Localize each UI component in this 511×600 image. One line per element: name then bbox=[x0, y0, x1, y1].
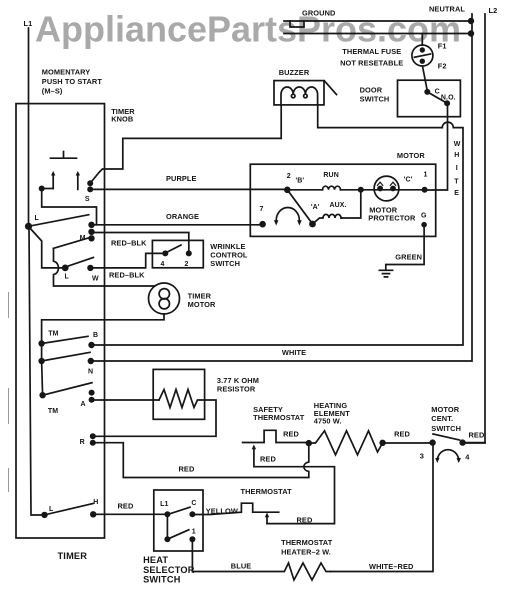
svg-text:M: M bbox=[80, 235, 86, 242]
push button arrow right bbox=[77, 174, 79, 189]
heat selector blade upper bbox=[167, 507, 190, 514]
door switch box bbox=[398, 80, 461, 117]
blade TM-B bbox=[42, 336, 88, 343]
node neutral junction 1 bbox=[468, 18, 474, 24]
node N bbox=[88, 358, 94, 364]
svg-text:T: T bbox=[454, 179, 459, 186]
wire fuse F1 lead bbox=[421, 34, 423, 46]
node motor junction bbox=[358, 187, 364, 193]
node wrinkle 4 bbox=[162, 250, 168, 256]
svg-text:H: H bbox=[454, 152, 459, 159]
wire node L down to timer LH switch bbox=[29, 227, 45, 515]
svg-text:L: L bbox=[65, 274, 70, 281]
node TM pivot 1 bbox=[38, 340, 44, 346]
node motor 7 bbox=[259, 221, 266, 228]
svg-text:ORANGE: ORANGE bbox=[166, 212, 199, 221]
svg-text:C: C bbox=[435, 89, 440, 96]
svg-text:TM: TM bbox=[48, 331, 58, 338]
svg-text:4: 4 bbox=[465, 453, 470, 462]
wire fuse F2 to door switch C bbox=[423, 66, 428, 91]
svg-text:GROUND: GROUND bbox=[302, 9, 336, 18]
svg-text:SWITCH: SWITCH bbox=[210, 259, 240, 268]
resistor box bbox=[153, 369, 204, 419]
wire push contact left bbox=[42, 188, 54, 190]
red wire H to heat selector L1 bbox=[93, 513, 167, 515]
wrinkle control switch box bbox=[152, 240, 203, 267]
wire NO to motor terminal 1 bbox=[425, 103, 448, 190]
svg-text:1: 1 bbox=[192, 529, 196, 536]
node B bbox=[88, 342, 94, 348]
svg-text:L1: L1 bbox=[24, 19, 33, 28]
svg-text:W: W bbox=[454, 141, 461, 148]
fuse contact line bbox=[415, 54, 431, 57]
svg-text:AppliancePartsPros.com: AppliancePartsPros.com bbox=[35, 9, 461, 50]
node cent switch 3 bbox=[429, 439, 435, 445]
svg-text:PROTECTOR: PROTECTOR bbox=[368, 214, 416, 223]
svg-text:HEATER–2 W.: HEATER–2 W. bbox=[281, 548, 331, 557]
svg-text:1: 1 bbox=[424, 172, 428, 179]
node R lower bbox=[90, 440, 96, 446]
red wire R to heating element bbox=[93, 443, 309, 478]
wrinkle switch blade bbox=[165, 245, 181, 253]
svg-text:SWITCH: SWITCH bbox=[360, 94, 390, 103]
wire cent switch 3 down to heater bbox=[331, 443, 434, 572]
door switch blade C-NO bbox=[427, 92, 447, 103]
buzzer coil loops bbox=[291, 94, 295, 98]
white wire buzzer to node B with crossover hump bbox=[92, 105, 464, 345]
svg-text:RUN: RUN bbox=[323, 172, 338, 179]
orange wire M to motor 7 bbox=[92, 224, 263, 226]
motor protector caret left bbox=[377, 182, 382, 185]
svg-text:L2: L2 bbox=[489, 6, 498, 15]
svg-text:MOTOR: MOTOR bbox=[397, 151, 425, 160]
cent switch arc arrows bbox=[438, 450, 459, 459]
node protector right bbox=[390, 186, 396, 192]
node motor 1 bbox=[422, 187, 428, 193]
thermostat heater zigzag bbox=[192, 539, 330, 580]
wire M blade to timer motor with crossover hump bbox=[54, 248, 155, 286]
scan artifact lines bbox=[8, 292, 10, 492]
ground bus wire bbox=[284, 20, 471, 22]
blade L-W timer bbox=[65, 258, 93, 268]
svg-text:2: 2 bbox=[287, 173, 291, 180]
node M1 bbox=[88, 222, 94, 228]
timer box bbox=[16, 104, 105, 538]
wire A to resistor bbox=[92, 399, 159, 401]
node push left contact bbox=[39, 186, 45, 192]
heating element zigzag bbox=[309, 431, 433, 455]
svg-text:SWITCH: SWITCH bbox=[143, 575, 181, 585]
svg-text:RED: RED bbox=[297, 516, 313, 525]
svg-text:3: 3 bbox=[420, 452, 424, 461]
svg-text:NOT RESETABLE: NOT RESETABLE bbox=[340, 58, 403, 67]
svg-text:MOMENTARY: MOMENTARY bbox=[42, 68, 91, 77]
blade L-M bbox=[29, 215, 89, 227]
wire L2 vertical to cent switch 4 bbox=[463, 14, 485, 443]
svg-text:RESISTOR: RESISTOR bbox=[217, 385, 256, 394]
safety thermostat bbox=[243, 430, 309, 442]
svg-text:PUSH TO START: PUSH TO START bbox=[42, 77, 103, 86]
push button cap bbox=[51, 152, 77, 159]
svg-text:RED–BLK: RED–BLK bbox=[109, 271, 145, 280]
svg-text:RED–BLK: RED–BLK bbox=[111, 239, 147, 248]
blade M-TM bbox=[54, 237, 92, 248]
node selector bottom left bbox=[164, 536, 170, 542]
svg-text:SWITCH: SWITCH bbox=[431, 424, 461, 433]
svg-text:N.O.: N.O. bbox=[441, 95, 456, 102]
buzzer box bbox=[274, 81, 324, 105]
svg-text:H: H bbox=[93, 499, 98, 506]
node TM pivot 3 bbox=[39, 392, 45, 398]
svg-text:DOOR: DOOR bbox=[360, 86, 383, 95]
svg-text:B: B bbox=[93, 332, 98, 339]
wire push left to M bbox=[42, 190, 97, 225]
svg-text:TIMER: TIMER bbox=[58, 551, 88, 561]
wire TM rail bbox=[42, 344, 43, 396]
svg-text:BUZZER: BUZZER bbox=[279, 68, 310, 77]
svg-text:4: 4 bbox=[161, 261, 165, 268]
safety thermostat link arrow bbox=[254, 449, 335, 524]
motor protector caret right bbox=[390, 182, 395, 185]
svg-text:S: S bbox=[85, 196, 90, 203]
push button arrow left bbox=[52, 174, 54, 189]
svg-text:PURPLE: PURPLE bbox=[166, 174, 197, 183]
run coil bbox=[323, 186, 341, 190]
node selector C bbox=[189, 511, 195, 517]
heat selector switch box bbox=[154, 490, 203, 551]
node door NO bbox=[444, 100, 450, 106]
wire motor G to ground bbox=[386, 227, 424, 269]
node selector L1 bbox=[164, 511, 170, 517]
svg-text:KNOB: KNOB bbox=[111, 114, 133, 123]
svg-text:THERMAL FUSE: THERMAL FUSE bbox=[342, 47, 401, 56]
svg-text:R: R bbox=[80, 439, 85, 446]
node motor A bbox=[309, 221, 316, 228]
wire L1 feed bbox=[28, 28, 30, 226]
svg-text:'B': 'B' bbox=[296, 178, 305, 185]
svg-text:F1: F1 bbox=[438, 42, 447, 51]
svg-text:THERMOSTAT: THERMOSTAT bbox=[281, 538, 333, 547]
motor blade 2-A bbox=[287, 190, 312, 224]
svg-text:RED: RED bbox=[394, 430, 410, 439]
node wrinkle 2 bbox=[186, 250, 192, 256]
node S upper bbox=[87, 180, 93, 186]
svg-text:YELLOW: YELLOW bbox=[206, 507, 238, 516]
svg-text:I: I bbox=[456, 165, 458, 172]
svg-text:RED: RED bbox=[179, 465, 195, 474]
node contact L timer bbox=[62, 265, 69, 272]
blade TM-A bbox=[43, 383, 92, 396]
svg-text:MOTOR: MOTOR bbox=[431, 405, 459, 414]
node R upper bbox=[90, 433, 96, 439]
heat selector wire L1 down bbox=[166, 514, 168, 539]
svg-text:THERMOSTAT: THERMOSTAT bbox=[241, 487, 293, 496]
svg-text:HEAT: HEAT bbox=[143, 555, 168, 565]
node door C bbox=[424, 89, 430, 95]
thermostat heater link arrow bbox=[266, 516, 268, 524]
motor box bbox=[250, 164, 435, 236]
node TM pivot 2 bbox=[38, 358, 44, 364]
svg-text:'C': 'C' bbox=[404, 177, 413, 184]
svg-text:'A': 'A' bbox=[311, 204, 320, 211]
neutral to fuse wire bbox=[284, 33, 471, 35]
svg-text:MOTOR: MOTOR bbox=[188, 300, 216, 309]
svg-text:RED: RED bbox=[469, 431, 485, 440]
timer motor circle bbox=[149, 283, 180, 314]
chassis ground tab bbox=[290, 21, 304, 27]
svg-text:WHITE–RED: WHITE–RED bbox=[369, 562, 414, 571]
node neutral junction 2 bbox=[468, 30, 474, 36]
svg-text:RED: RED bbox=[260, 455, 276, 464]
motor centrifugal arc bbox=[276, 208, 299, 221]
svg-text:W: W bbox=[92, 276, 99, 283]
svg-text:AUX.: AUX. bbox=[330, 202, 347, 209]
node heater left junction bbox=[306, 440, 312, 446]
svg-text:CENT.: CENT. bbox=[431, 414, 453, 423]
svg-text:SELECTOR: SELECTOR bbox=[143, 565, 195, 575]
svg-text:L1: L1 bbox=[160, 501, 168, 508]
red-blk wire W to wrinkle 4 bbox=[90, 253, 165, 268]
svg-text:7: 7 bbox=[260, 206, 264, 213]
node A lower bbox=[89, 397, 95, 403]
timer motor coil bbox=[159, 289, 169, 299]
svg-text:F2: F2 bbox=[438, 61, 447, 70]
wire S to buzzer bbox=[90, 105, 281, 183]
blade TM-N bbox=[42, 352, 90, 361]
svg-text:A: A bbox=[81, 401, 86, 408]
node S lower bbox=[87, 186, 93, 192]
heat selector blade lower bbox=[167, 530, 188, 539]
node M2 bbox=[88, 229, 94, 235]
node protector left bbox=[377, 186, 383, 192]
cent switch blade bbox=[433, 434, 460, 440]
svg-text:WHITE: WHITE bbox=[282, 348, 306, 357]
motor run winding wire 2 to 1 bbox=[287, 189, 322, 191]
node motor G bbox=[421, 222, 427, 228]
node M3 bbox=[88, 235, 94, 241]
svg-text:L: L bbox=[49, 506, 54, 513]
wire node L to contact L bbox=[29, 227, 66, 268]
svg-text:G: G bbox=[421, 213, 427, 220]
buzzer coil bbox=[281, 87, 318, 105]
svg-text:RED: RED bbox=[118, 502, 134, 511]
node fuse F1 dot bbox=[420, 47, 425, 52]
buzzer striker bbox=[325, 81, 337, 95]
blade L-H timer bbox=[45, 504, 94, 515]
motor protector circle bbox=[374, 176, 399, 201]
node A upper bbox=[89, 390, 95, 396]
earth ground symbol bbox=[379, 270, 392, 277]
thermal fuse F1-F2 bbox=[412, 45, 433, 66]
node selector 1 bbox=[189, 536, 195, 542]
node L bottom bbox=[41, 512, 47, 518]
node heater right junction bbox=[379, 440, 385, 446]
node motor 2 bbox=[284, 187, 291, 194]
node cent switch 4 bbox=[459, 439, 465, 445]
svg-text:RED: RED bbox=[283, 430, 299, 439]
svg-text:THERMOSTAT: THERMOSTAT bbox=[253, 413, 305, 422]
purple wire S to motor 2 bbox=[90, 188, 287, 190]
aux coil wire A to junction bbox=[313, 214, 342, 224]
svg-text:E: E bbox=[454, 190, 459, 197]
node H bottom bbox=[90, 511, 96, 517]
neutral vertical wire to node N bbox=[91, 14, 472, 361]
node L junction bbox=[25, 223, 32, 230]
svg-text:TM: TM bbox=[48, 408, 58, 415]
yellow wire C to thermostat bbox=[192, 503, 278, 514]
svg-text:(M–S): (M–S) bbox=[42, 86, 63, 95]
svg-text:2: 2 bbox=[185, 261, 189, 268]
svg-text:BLUE: BLUE bbox=[231, 562, 252, 571]
node contact W timer bbox=[87, 265, 93, 271]
resistor 3.77k zigzag bbox=[93, 390, 216, 437]
svg-text:N: N bbox=[88, 369, 93, 376]
wire cent switch 4 bbox=[463, 442, 485, 444]
red-blk wire M to wrinkle 2 bbox=[92, 233, 189, 254]
svg-text:NEUTRAL: NEUTRAL bbox=[429, 5, 465, 14]
node fuse F2 dot bbox=[420, 59, 425, 64]
svg-text:4750 W.: 4750 W. bbox=[314, 417, 342, 426]
svg-text:L: L bbox=[35, 215, 40, 222]
svg-text:C: C bbox=[191, 500, 196, 507]
wire timer motor to TM contact bbox=[42, 314, 164, 344]
svg-text:GREEN: GREEN bbox=[395, 253, 422, 262]
